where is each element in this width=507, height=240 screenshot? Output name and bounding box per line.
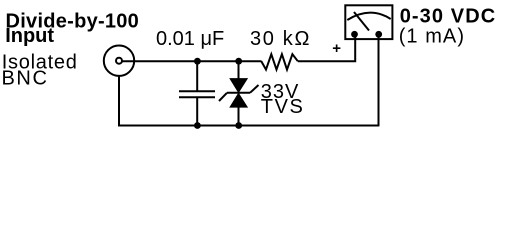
capacitor C1 bottom plate — [179, 96, 215, 98]
svg-text:TVS: TVS — [261, 96, 303, 118]
node: top rail / C1 junction — [194, 58, 201, 65]
wire: bottom rail — [118, 125, 379, 127]
wire: BNC pin to resistor (top rail) — [122, 60, 262, 62]
connector J1 BNC center pin — [116, 58, 122, 64]
capacitor C1 0.01 uF: top lead — [196, 61, 198, 91]
node: bottom rail / D1 junction — [235, 122, 242, 129]
svg-text:+: + — [332, 40, 341, 57]
svg-text:BNC: BNC — [2, 68, 47, 90]
svg-text:(1 mA): (1 mA) — [399, 25, 464, 47]
wire: BNC shell down — [118, 76, 120, 126]
capacitor C1 bottom lead — [196, 97, 198, 125]
meter M1 needle — [354, 12, 369, 31]
svg-text:30 kΩ: 30 kΩ — [250, 28, 309, 50]
TVS diode D1 lower triangle — [230, 93, 247, 107]
node: top rail / D1 junction — [235, 58, 242, 65]
wire: bottom rail up to meter minus terminal — [378, 34, 380, 126]
meter M1 scale arc — [347, 13, 390, 20]
svg-text:0-30 VDC: 0-30 VDC — [400, 6, 496, 28]
TVS diode D1 top lead — [238, 61, 240, 79]
resistor R1 30 kOhm — [261, 54, 298, 69]
meter M1 case — [345, 5, 392, 39]
TVS diode D1 left tick — [219, 93, 227, 101]
connector J1 BNC outer shell — [104, 46, 134, 76]
meter M1 plus terminal — [351, 31, 358, 38]
capacitor C1 top plate — [179, 90, 215, 92]
TVS diode D1 zener bar — [227, 92, 250, 94]
TVS diode D1 right tick — [250, 85, 259, 93]
wire: resistor to meter plus terminal — [298, 34, 355, 61]
TVS diode D1 upper triangle — [230, 79, 247, 93]
node: bottom rail / C1 junction — [194, 122, 201, 129]
svg-text:Input: Input — [5, 25, 54, 47]
meter M1 minus terminal — [375, 31, 382, 38]
svg-text:0.01 μF: 0.01 μF — [156, 28, 224, 50]
TVS diode D1 bottom lead — [238, 107, 240, 126]
